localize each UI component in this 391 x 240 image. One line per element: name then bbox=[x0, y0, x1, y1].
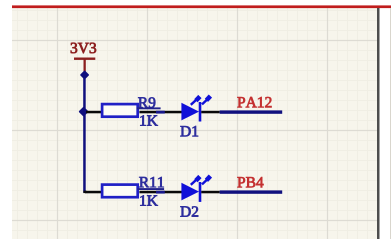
label R11 value 1K bbox=[140, 195, 157, 205]
pin R11.2 / D2 anode pin bbox=[139, 191, 182, 194]
net label PB4 bbox=[237, 177, 263, 187]
resistor R11 bbox=[102, 185, 138, 198]
wire segment between R9 and D1 bbox=[156, 111, 165, 114]
pin D2 cathode bbox=[201, 191, 219, 194]
label R11 designator bbox=[138, 177, 165, 190]
label R9 value 1K bbox=[140, 115, 157, 125]
label D2 bbox=[180, 206, 198, 216]
LED D2 bbox=[181, 176, 210, 202]
pin R9.2 / D1 anode pin bbox=[139, 111, 182, 114]
elbow wire to R11 pin bbox=[83, 191, 86, 194]
pin R11.1 bbox=[85, 191, 101, 194]
junction node at R9 branch bbox=[80, 108, 88, 116]
resistor R9 bbox=[102, 104, 138, 117]
LED D1 bbox=[181, 96, 210, 121]
junction at power port bbox=[81, 71, 88, 78]
pin R9.1 bbox=[86, 111, 101, 114]
wire vertical bus from 3V3 bbox=[83, 74, 86, 193]
pin D1 cathode bbox=[201, 111, 219, 114]
power port 3V3 bbox=[71, 43, 96, 73]
wire net PB4 bbox=[220, 190, 283, 193]
wire segment between R11 and D2 bbox=[156, 191, 165, 194]
label D1 bbox=[180, 126, 198, 136]
label R9 designator bbox=[137, 97, 161, 109]
net label PA12 bbox=[237, 97, 271, 107]
wire net PA12 bbox=[220, 110, 283, 113]
